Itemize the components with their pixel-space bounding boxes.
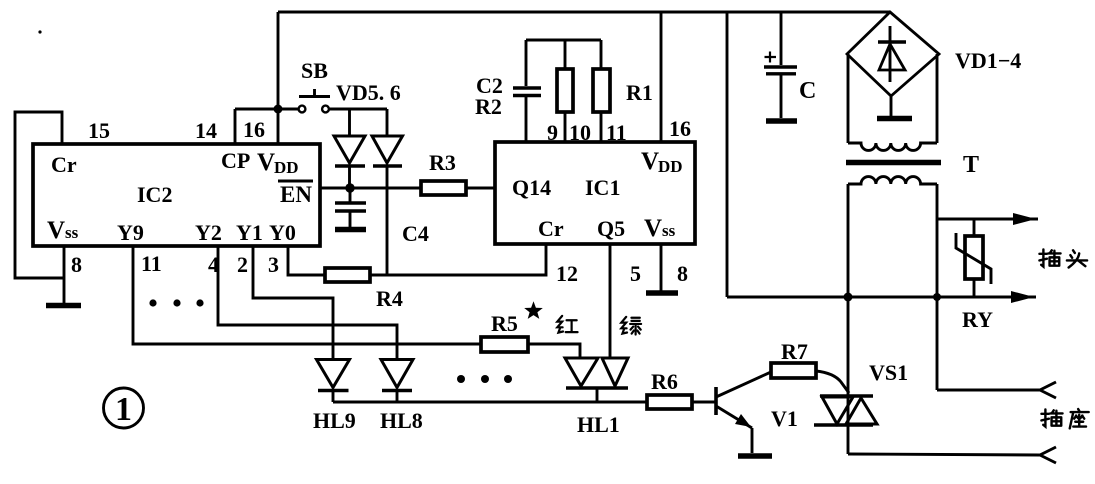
svg-text:HL1: HL1 [577,412,620,437]
svg-text:V: V [641,148,659,175]
svg-text:12: 12 [556,261,578,286]
wire right bus vertical [726,12,729,297]
svg-text:VD1−4: VD1−4 [955,48,1021,73]
svg-text:2: 2 [237,252,248,277]
wire R3 to IC1 [466,187,495,190]
svg-text:DD: DD [274,158,299,177]
svg-text:VD5. 6: VD5. 6 [336,80,401,105]
wire oscillator top link [526,39,601,42]
node junction primary-right [933,293,941,301]
ground bridge center tap [877,96,912,119]
node VDD/SB junction [274,105,283,114]
svg-text:16: 16 [669,116,691,141]
wire IC1 VDD pin16 to top rail [660,12,663,142]
capacitor C [764,12,816,118]
triac VS1 [814,360,908,454]
node arrow plug upper [1013,213,1036,225]
node junction primary-left [844,293,853,302]
svg-text:R5: R5 [491,311,518,336]
svg-text:IC2: IC2 [137,182,172,207]
wire R7 to VS1 gate [816,371,849,393]
resistor R3 [421,150,466,195]
svg-text:CP: CP [221,148,250,173]
svg-text:V: V [47,217,65,244]
wire primary left leg down to VS1 [847,184,850,397]
capacitor C2 [475,40,541,142]
ground IC2 Vss [46,303,81,309]
svg-text:11: 11 [606,120,627,145]
resistor R2 [557,40,573,142]
svg-text:IC1: IC1 [585,175,620,200]
wire Q5 to HL1 green [609,244,612,358]
wire CP to VDD top link [235,108,298,111]
svg-text:R1: R1 [626,80,653,105]
node speck [38,30,41,33]
wire plug upper line [938,218,1038,221]
wire Y2 pin4 to HL8 [218,246,397,360]
svg-text:V: V [644,215,662,242]
svg-text:V1: V1 [771,406,798,431]
LED HL1 dual [565,358,628,437]
wire IC1 Vss pin8 down [660,244,663,291]
svg-text:8: 8 [677,261,688,286]
svg-text:Q14: Q14 [512,175,551,200]
svg-text:R6: R6 [651,369,678,394]
svg-text:C: C [799,78,816,104]
wire Y0 pin3 down [288,246,325,275]
resistor R5 [481,301,543,352]
wire Vss pin8 down [63,246,66,304]
svg-text:EN: EN [280,182,312,207]
LED HL8 [380,360,423,434]
node fork socket upper [1040,382,1056,398]
wire SB to diodes [329,108,387,111]
resistor R4 [325,268,403,311]
svg-text:11: 11 [141,251,162,276]
capacitor C4 [335,188,429,246]
wire mains lower line [727,296,1036,299]
svg-text:R2: R2 [475,94,502,119]
wire vertical to top rail [277,12,280,109]
label figure number 1 [104,388,144,428]
wire CP riser [234,109,237,144]
svg-text:15: 15 [88,118,110,143]
svg-text:9: 9 [547,120,558,145]
svg-text:Y2: Y2 [195,220,222,245]
svg-text:Cr: Cr [538,216,564,241]
svg-text:3: 3 [268,252,279,277]
label green (lv) [621,317,641,335]
svg-text:1: 1 [115,391,132,428]
svg-text:Cr: Cr [51,152,77,177]
svg-text:R7: R7 [781,339,808,364]
wire socket upper line [937,389,1040,392]
svg-text:T: T [963,152,979,178]
resistor R6 [647,369,692,409]
label red (hong) [557,316,577,333]
node dots HL ellipsis [457,375,512,383]
node dots Y outputs ellipsis [149,299,203,306]
svg-text:5: 5 [630,261,641,286]
IC IC2 [33,144,320,246]
svg-text:8: 8 [71,252,82,277]
wire R6 to V1 base [692,401,716,404]
svg-text:ss: ss [65,223,79,242]
svg-text:Q5: Q5 [597,216,625,241]
svg-text:RY: RY [962,307,993,332]
svg-text:10: 10 [569,120,591,145]
svg-text:Y1: Y1 [236,220,263,245]
ground IC1 Vss [646,290,678,296]
wire LED cathode bus [333,401,647,404]
svg-text:Y0: Y0 [269,220,296,245]
svg-text:VS1: VS1 [869,360,908,385]
diode VD5 [334,109,365,188]
resistor R7 [771,339,816,378]
ground C [766,118,797,124]
transistor V1 [716,372,798,453]
svg-text:16: 16 [243,117,265,142]
svg-text:HL8: HL8 [380,408,423,433]
wire Y1 pin2 to HL9 [253,246,333,360]
svg-text:C4: C4 [402,221,429,246]
svg-text:V: V [257,149,275,176]
svg-text:ss: ss [662,221,676,240]
wire Y9 pin11 to R5 [133,246,481,344]
svg-text:Y9: Y9 [117,220,144,245]
wire top rail [278,11,890,14]
svg-text:DD: DD [658,157,683,176]
diode VD6 [372,109,403,275]
wire R5 to HL1 red [528,344,580,358]
resistor R1 [593,40,653,142]
wire VDD riser [277,109,280,144]
wire socket lower line [848,454,1040,455]
LED HL9 [313,360,356,434]
wire EN line [320,187,421,190]
label plug (chatou) [1039,249,1087,267]
bridge rectifier VD1-4 [847,12,1021,96]
svg-text:HL9: HL9 [313,408,356,433]
ground V1 emitter [738,453,772,459]
wire primary right leg down [936,184,939,390]
svg-text:R3: R3 [429,150,456,175]
svg-text:SB: SB [301,58,328,83]
svg-text:14: 14 [195,118,217,143]
transformer T [846,54,979,184]
varistor RY [956,219,993,332]
wire pin15 Cr loop to Vss [15,112,64,278]
node fork socket lower [1040,447,1056,463]
label socket (chazuo) [1041,409,1088,428]
switch SB [299,58,330,112]
svg-text:R4: R4 [376,286,403,311]
wire R4 to IC1 Cr pin12 [370,244,546,275]
node arrow plug lower [1011,291,1034,303]
IC IC1 [495,142,695,244]
node EN junction [345,183,354,192]
